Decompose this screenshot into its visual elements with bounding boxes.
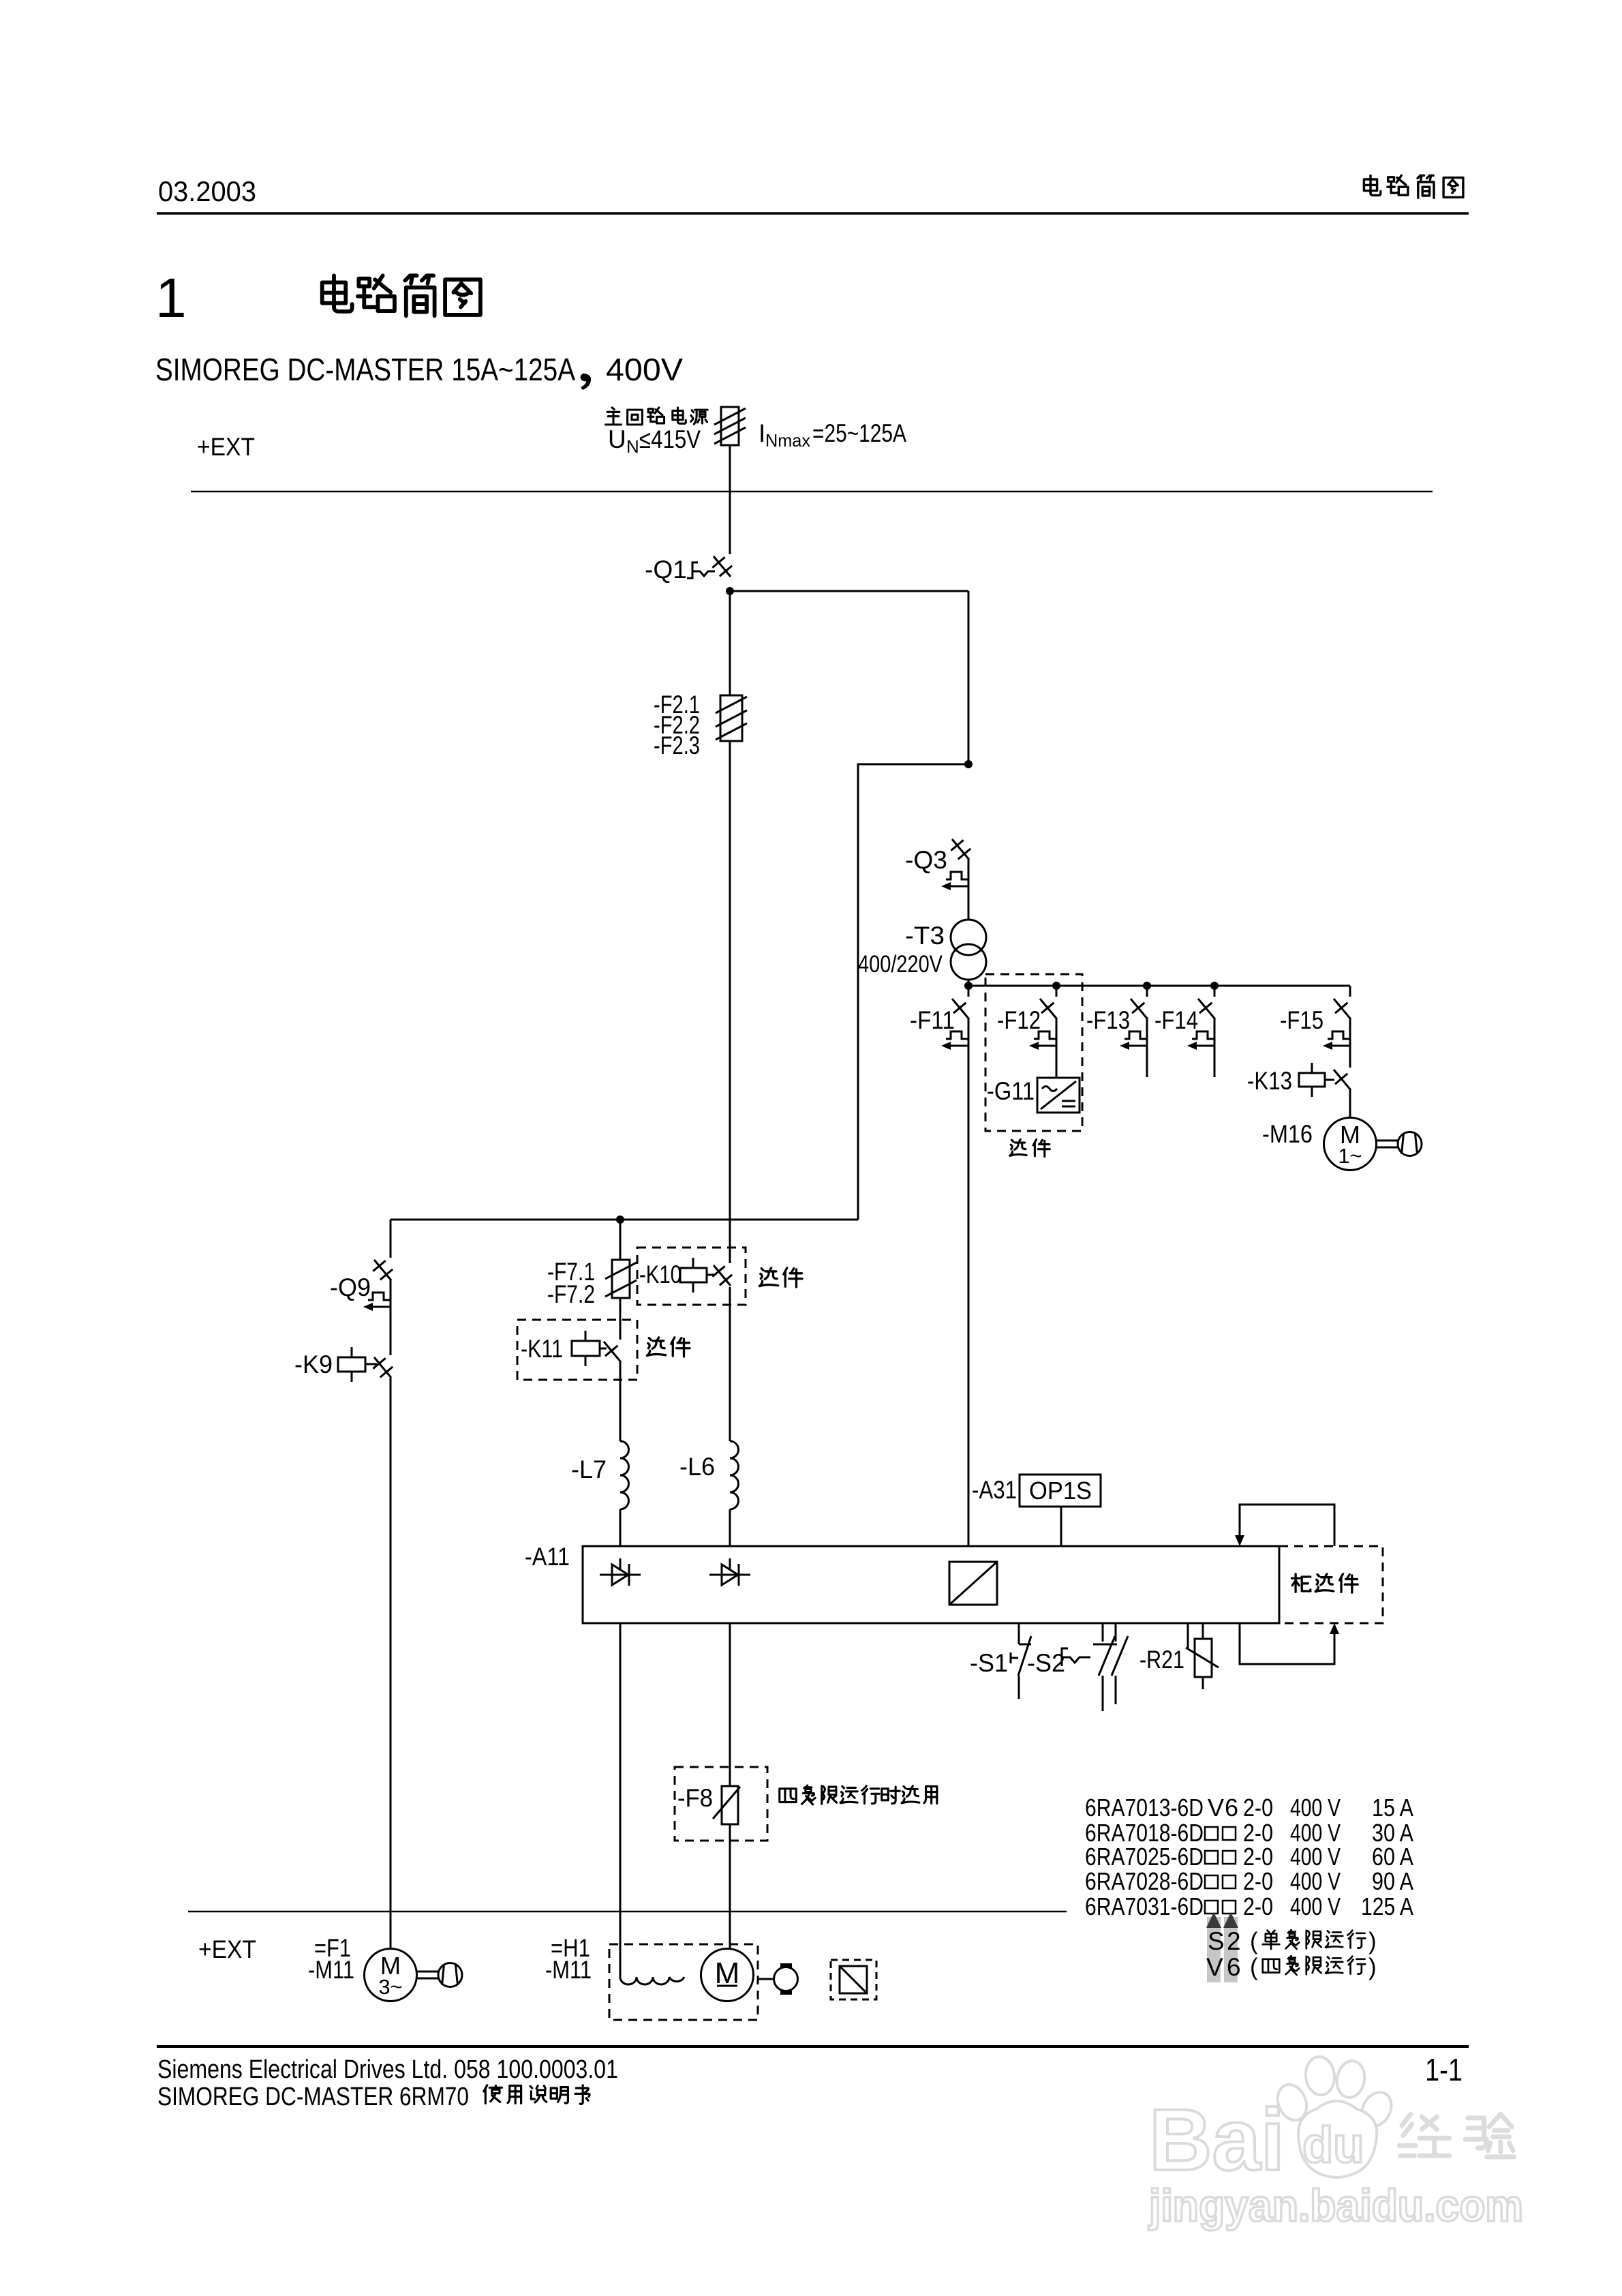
converter unit A11 <box>525 1543 1279 1623</box>
breaker F13 <box>1086 986 1148 1050</box>
tacho generator <box>758 1965 798 1993</box>
pulse encoder (dashed square) <box>831 1960 876 1999</box>
fuse: main line fuses (3) <box>721 407 739 445</box>
wire: F14 stub <box>1214 1019 1216 1077</box>
svg-text:6: 6 <box>1227 1953 1241 1981</box>
option box K10 (dashed) <box>637 1248 746 1305</box>
operator panel A31 OP1S <box>972 1475 1101 1507</box>
transformer T3 400/220V <box>858 920 986 980</box>
wire: F8 to DC motor <box>729 1824 731 1949</box>
wire: K11 to L7 <box>619 1362 622 1441</box>
svg-text:Siemens Electrical Drives Ltd.: Siemens Electrical Drives Ltd. 058 100.0… <box>157 2055 618 2084</box>
wire: bottom boundary line <box>188 1911 1067 1913</box>
breaker F12 <box>997 986 1057 1050</box>
wire: F2 down to K10 contact <box>729 741 731 1263</box>
svg-text:-R21: -R21 <box>1139 1646 1184 1674</box>
svg-text:6RA7025-6D: 6RA7025-6D <box>1085 1843 1204 1871</box>
svg-text:-F12: -F12 <box>997 1006 1041 1034</box>
wire: junction down to F7 <box>619 1220 622 1260</box>
svg-text:6RA7028-6D: 6RA7028-6D <box>1085 1867 1204 1895</box>
svg-text:-K13: -K13 <box>1247 1067 1292 1095</box>
footer rule <box>157 2045 1469 2048</box>
svg-text:N: N <box>626 436 639 457</box>
motor M11 (3~) with fan <box>365 1949 417 2002</box>
option box G11 (dashed) <box>985 974 1082 1131</box>
svg-text:(: ( <box>1250 1954 1258 1980</box>
label 选件 right of K10 <box>759 1268 802 1287</box>
svg-text:-Q1: -Q1 <box>645 556 687 584</box>
svg-text:-T3: -T3 <box>905 922 945 950</box>
circuit breaker Q9 <box>330 1260 393 1311</box>
fuse F8 (DC fuse, option) <box>677 1784 740 1824</box>
watermark baidu jingyan <box>1148 2055 1523 2231</box>
svg-text:-F13: -F13 <box>1086 1006 1130 1034</box>
svg-text:400 V: 400 V <box>1290 1843 1341 1871</box>
option box K11 (dashed) <box>517 1320 637 1380</box>
wire: F15 to K13 <box>1349 1019 1351 1068</box>
svg-text:-S2: -S2 <box>1027 1649 1065 1677</box>
arrow: A11 to option (bottom loop) <box>1240 1623 1339 1664</box>
labels =F1 -M11 <box>308 1934 354 1984</box>
labels =H1 -M11 <box>545 1934 592 1984</box>
fuse F7.1 F7.2 <box>547 1258 637 1308</box>
switch S2 (two contacts) <box>1027 1623 1128 1711</box>
svg-text:90 A: 90 A <box>1372 1867 1413 1895</box>
svg-text:-F11: -F11 <box>910 1006 955 1034</box>
svg-text:S: S <box>1208 1927 1225 1955</box>
wire: tap to left then down <box>858 764 968 1220</box>
svg-text:-K9: -K9 <box>294 1350 333 1378</box>
svg-text:2-0: 2-0 <box>1243 1794 1273 1822</box>
svg-text:-M11: -M11 <box>545 1956 592 1984</box>
thyristor (left arm) <box>600 1574 641 1576</box>
svg-text:V: V <box>1208 1794 1224 1822</box>
svg-text:): ) <box>1368 1954 1377 1980</box>
legend V6 four quadrant <box>1206 1953 1377 1981</box>
svg-text:60 A: 60 A <box>1372 1843 1413 1871</box>
svg-text:+EXT: +EXT <box>197 433 255 461</box>
contactor K13 <box>1247 1063 1351 1097</box>
svg-text:-L7: -L7 <box>571 1455 607 1483</box>
svg-text:6: 6 <box>1225 1794 1238 1822</box>
svg-text:jingyan.baidu.com: jingyan.baidu.com <box>1148 2180 1523 2231</box>
svg-text:125 A: 125 A <box>1361 1892 1413 1920</box>
inductor L6 <box>679 1441 739 1509</box>
svg-text:OP1S: OP1S <box>1029 1477 1092 1505</box>
contactor K9 <box>294 1347 393 1382</box>
label 主回路电源 <box>605 408 707 425</box>
wire: Q3 to T3 <box>968 860 970 920</box>
label 四象限运行时选用 <box>780 1785 937 1804</box>
wire: L7 to A11 <box>619 1509 622 1546</box>
switch S1 <box>970 1623 1031 1699</box>
svg-text:V: V <box>1206 1953 1223 1981</box>
junction F14 tap <box>1210 982 1219 990</box>
svg-text:400 V: 400 V <box>1290 1892 1341 1920</box>
svg-text:2: 2 <box>1227 1927 1241 1955</box>
wire: F13 stub <box>1146 1019 1148 1077</box>
wire: Q1 to F2 fuses <box>729 591 731 695</box>
label 选件 under G11 <box>1010 1140 1050 1157</box>
fuse F2.1 F2.2 F2.3 <box>654 691 747 759</box>
svg-text:-F14: -F14 <box>1154 1006 1198 1034</box>
svg-text:2-0: 2-0 <box>1243 1867 1273 1895</box>
option box F8 (dashed) <box>675 1767 767 1841</box>
svg-text:2-0: 2-0 <box>1243 1843 1273 1871</box>
svg-text:-S1: -S1 <box>970 1649 1008 1677</box>
arrow up (S column) <box>1206 1912 1221 1928</box>
svg-text:2-0: 2-0 <box>1243 1892 1273 1920</box>
svg-text:6RA7013-6D: 6RA7013-6D <box>1085 1794 1204 1822</box>
svg-text:Bai: Bai <box>1149 2091 1285 2189</box>
DC motor M11 <box>701 1949 754 2002</box>
svg-text:I: I <box>759 419 765 447</box>
junction below Q1 <box>726 587 734 595</box>
wire: K13 to fan motor M16 <box>1349 1090 1351 1118</box>
breaker F11 <box>910 999 969 1050</box>
svg-text:400/220V: 400/220V <box>858 951 943 978</box>
svg-text:400 V: 400 V <box>1290 1794 1341 1822</box>
contactor K10 (option) <box>639 1258 732 1293</box>
junction below T3 <box>964 982 973 990</box>
svg-text:1-1: 1-1 <box>1425 2052 1463 2087</box>
arrow: option to A11 (top loop) <box>1235 1505 1334 1546</box>
footer line 2 <box>157 2083 590 2111</box>
svg-text:3~: 3~ <box>378 1975 402 1999</box>
svg-text:400 V: 400 V <box>1290 1867 1341 1895</box>
legend S2 single quadrant <box>1208 1927 1377 1955</box>
svg-text:du: du <box>1302 2117 1364 2173</box>
svg-text:-M11: -M11 <box>308 1956 354 1984</box>
svg-text:SIMOREG DC-MASTER 15A~125A: SIMOREG DC-MASTER 15A~125A <box>155 352 575 387</box>
svg-text:-A31: -A31 <box>972 1476 1017 1504</box>
svg-text:≤415V: ≤415V <box>639 425 701 453</box>
svg-text:U: U <box>608 425 626 453</box>
chapter title 电路简图 <box>322 275 480 316</box>
svg-text:(: ( <box>1250 1928 1258 1954</box>
svg-text:-F15: -F15 <box>1280 1006 1323 1034</box>
svg-text:-M16: -M16 <box>1262 1120 1313 1148</box>
wire: 220V distribution bus <box>968 980 970 997</box>
wire: F12 to G11 <box>1056 1019 1058 1078</box>
thyristor (right arm) <box>709 1574 750 1576</box>
wire: horizontal feeder to Q9/F7 branches <box>391 1219 858 1221</box>
wire: K10 to L6 <box>729 1287 731 1441</box>
type list 6RA70xx <box>1085 1794 1413 1920</box>
cabinet option box 柜选件 (dashed) <box>1279 1546 1383 1623</box>
junction at control branch tap <box>964 760 973 768</box>
wire: OP1S to A11 <box>1060 1507 1062 1546</box>
circuit breaker Q3 <box>905 839 970 890</box>
svg-text:15 A: 15 A <box>1372 1794 1413 1822</box>
wire: left branch down from feeder <box>390 1220 392 1258</box>
breaker F15 <box>1280 986 1351 1050</box>
svg-text:-F8: -F8 <box>677 1784 713 1812</box>
wire: A11 right output to F8 <box>729 1623 731 1786</box>
wire: A11 left output down <box>619 1623 622 1947</box>
header title 电路简图 (top right) <box>1364 175 1463 198</box>
svg-text:6RA7031-6D: 6RA7031-6D <box>1085 1892 1204 1920</box>
label 选件 right of K11 <box>647 1338 690 1357</box>
wire: top boundary line <box>191 491 1433 493</box>
svg-text:-A11: -A11 <box>525 1543 570 1571</box>
varistor R21 <box>1139 1623 1219 1689</box>
svg-text:03.2003: 03.2003 <box>158 175 256 207</box>
svg-text:-K10: -K10 <box>639 1260 682 1288</box>
junction F7 branch <box>616 1215 624 1224</box>
svg-text:1: 1 <box>155 267 187 329</box>
svg-text:-G11: -G11 <box>987 1077 1035 1105</box>
svg-text:=25~125A: =25~125A <box>812 419 906 447</box>
wire: right branch down <box>968 591 970 764</box>
fan motor M16 (1~) <box>1262 1118 1422 1170</box>
electronics block (square with diagonal) <box>949 1562 997 1605</box>
svg-text:+EXT: +EXT <box>198 1935 256 1963</box>
junction F12 tap <box>1052 982 1060 990</box>
field winding (H1 box) <box>609 1944 758 2020</box>
svg-text:SIMOREG DC-MASTER 6RM70: SIMOREG DC-MASTER 6RM70 <box>157 2083 469 2111</box>
svg-text:-K11: -K11 <box>521 1335 563 1363</box>
wire: Q9 to K9 <box>390 1280 392 1355</box>
header rule <box>157 212 1469 215</box>
svg-text:400V: 400V <box>606 352 683 387</box>
breaker F14 <box>1154 986 1215 1050</box>
wire: K9 down to motor M11 <box>390 1378 392 1949</box>
svg-text:-Q3: -Q3 <box>905 846 947 874</box>
power supply G11 (~/=) <box>987 1077 1080 1113</box>
svg-text:): ) <box>1368 1928 1377 1954</box>
highlight column S/V <box>1207 1917 1221 1982</box>
svg-text:-F2.3: -F2.3 <box>654 731 700 759</box>
wire: F11 down to A11 <box>968 1019 970 1546</box>
circuit breaker Q1 <box>645 556 732 584</box>
svg-text:-L6: -L6 <box>679 1453 715 1481</box>
contactor K11 (option) <box>521 1331 621 1366</box>
svg-text:1~: 1~ <box>1338 1144 1362 1168</box>
svg-text:-Q9: -Q9 <box>330 1273 371 1301</box>
svg-text:Nmax: Nmax <box>765 430 810 451</box>
arrow up (V column) <box>1223 1912 1238 1928</box>
svg-text:-F7.2: -F7.2 <box>547 1280 595 1308</box>
wire: L6 to A11 <box>729 1509 731 1546</box>
junction F13 tap <box>1143 982 1151 990</box>
wire: supply drop to Q1 <box>729 445 731 554</box>
inductor L7 <box>571 1441 628 1509</box>
wire: F7 to K11 <box>619 1298 622 1340</box>
wire: Q1 junction to right branch <box>730 590 968 592</box>
